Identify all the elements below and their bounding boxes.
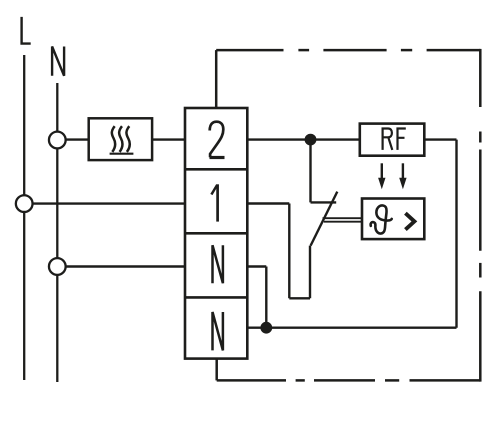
enclosure border bottom (dash-dot): [217, 379, 481, 382]
wire terminal 2 to RF: [247, 138, 359, 140]
wire terminal N3 jog: [247, 267, 266, 328]
wire L to terminal 1: [33, 202, 187, 204]
terminal label N (4th): [213, 312, 223, 350]
wire terminal block bottom to enclosure: [215, 359, 218, 381]
junction dot neutral return: [260, 322, 272, 334]
wire heater to terminal 2: [152, 138, 186, 140]
terminal circle on N line (heater feed): [49, 132, 66, 149]
terminal label 1: [216, 184, 219, 221]
mechanical link to thermostat: [323, 218, 363, 222]
RF signal arrow 1: [381, 163, 383, 180]
junction dot switch feed: [305, 134, 317, 146]
label L: [20, 17, 30, 44]
wire switch fixed contact lead: [309, 140, 311, 203]
wire RF to return: [424, 138, 456, 140]
terminal circle on N line (lower): [49, 258, 66, 275]
wire terminal 1 to switch: [247, 204, 310, 299]
enclosure border right (dash-dot): [479, 49, 482, 382]
thermostat greater-than symbol: [405, 213, 414, 229]
terminal label 2: [210, 122, 224, 158]
wire terminal block top to enclosure: [215, 50, 218, 108]
thermostat box B1: [362, 199, 424, 240]
wire L line: [23, 55, 25, 380]
wire terminal N4 to return: [247, 327, 456, 329]
wire return vertical: [455, 140, 457, 328]
RF label: [383, 129, 406, 150]
heating element E1: [89, 118, 152, 160]
switch fixed contact bar: [311, 201, 337, 203]
terminal label N (3rd): [213, 245, 223, 283]
terminal circle on L line: [16, 195, 33, 212]
label N: [52, 47, 64, 76]
switch blade S1: [311, 192, 338, 246]
wire N to terminal N3: [66, 265, 186, 267]
terminal block: [185, 108, 247, 359]
RF signal arrow 2: [402, 163, 404, 180]
enclosure border top (dash-dot): [216, 49, 480, 52]
wire N to heater: [57, 138, 88, 140]
wire N line: [56, 83, 58, 382]
RF receiver box U1: [360, 124, 425, 156]
thermostat theta symbol: [371, 205, 392, 233]
